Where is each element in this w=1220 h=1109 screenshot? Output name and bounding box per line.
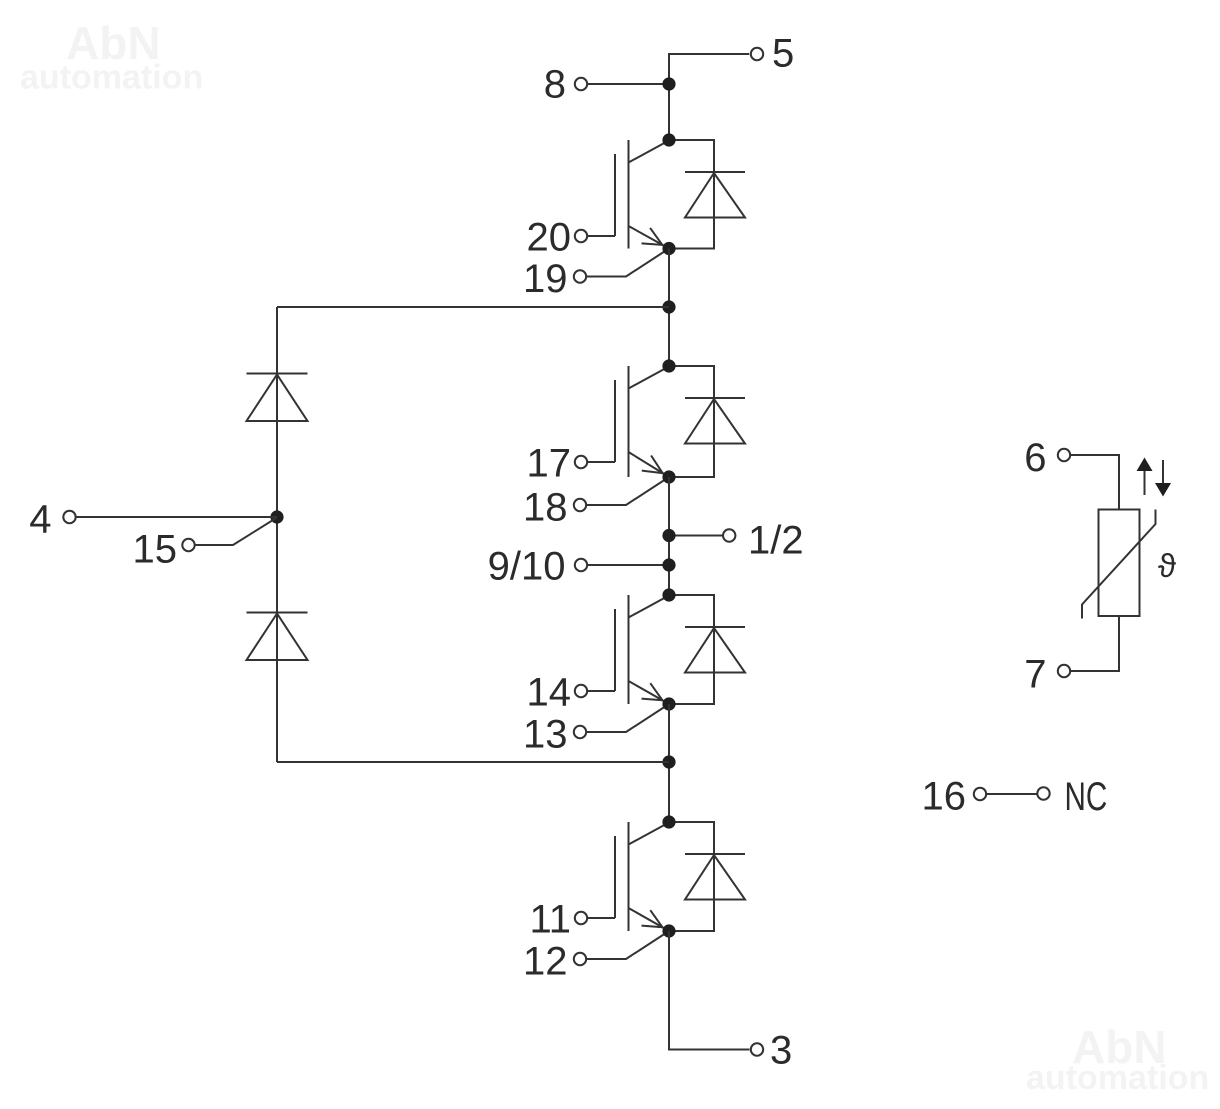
wire rail T4 emitter to terminal 3 [669, 931, 750, 1050]
label 9/10 [488, 544, 566, 588]
terminal 5 [751, 48, 763, 60]
label 20 [527, 215, 572, 259]
junction node 1/2 [662, 529, 675, 542]
terminal 8 [575, 78, 587, 90]
wire gate 11 [587, 917, 615, 919]
diode D5 (upper clamp) [247, 374, 308, 422]
svg-text:3: 3 [770, 1028, 792, 1072]
wire aux emitter 13 [586, 704, 669, 732]
svg-text:9/10: 9/10 [488, 544, 566, 588]
terminal 7 [1058, 665, 1070, 677]
terminal 14 [575, 685, 587, 697]
node T1 emitter [662, 242, 675, 255]
terminal 6 [1058, 449, 1070, 461]
terminal 18 [574, 499, 586, 511]
node T4 collector [662, 815, 675, 828]
svg-text:12: 12 [523, 939, 568, 983]
wire rail T3 emitter to T4 collector [668, 704, 670, 822]
junction node 9/10 [662, 558, 675, 571]
node T2 collector [662, 359, 675, 372]
svg-text:8: 8 [544, 62, 566, 106]
wire clamp branch bottom [277, 761, 669, 763]
diode D3 (anti-parallel) [669, 595, 745, 704]
svg-text:ϑ: ϑ [1158, 547, 1176, 584]
svg-text:1/2: 1/2 [748, 518, 804, 562]
label 15 [133, 527, 178, 571]
label 19 [523, 257, 568, 301]
label 4 [29, 497, 51, 541]
thermistor R1 (NTC) body [1099, 510, 1140, 617]
label 18 [523, 485, 568, 529]
watermark top-left [20, 17, 203, 97]
svg-text:18: 18 [523, 485, 568, 529]
label 1/2 [748, 518, 804, 562]
thermistor R1 characteristic stroke [1082, 510, 1156, 619]
diode D4 (anti-parallel) [669, 822, 745, 931]
terminal 19 [574, 270, 586, 282]
wire terminal 9/10 [587, 564, 669, 566]
wire clamp branch left rail [276, 307, 278, 762]
terminal 4 [63, 511, 75, 523]
terminal 20 [575, 230, 587, 242]
node T4 emitter [662, 924, 675, 937]
node T2 emitter [662, 470, 675, 483]
svg-text:14: 14 [527, 670, 572, 714]
terminal 1/2 [723, 529, 735, 541]
wire terminal 1/2 [669, 535, 723, 537]
diode D2 (anti-parallel) [669, 366, 745, 477]
wire gate 20 [587, 235, 615, 237]
label 3 [770, 1028, 792, 1072]
terminal 12 [574, 953, 586, 965]
terminal 13 [574, 726, 586, 738]
wire aux emitter 19 [586, 249, 669, 277]
svg-text:automation: automation [20, 59, 203, 97]
svg-text:7: 7 [1024, 652, 1046, 696]
svg-text:automation: automation [1026, 1059, 1209, 1097]
junction node at 8 [662, 77, 675, 90]
wire terminal 15 [195, 518, 278, 546]
wire rail T1 emitter to T2 collector [668, 249, 670, 367]
wire thermistor to terminal 7 [1071, 616, 1120, 671]
terminal NC [1037, 787, 1049, 799]
terminal 3 [751, 1043, 763, 1055]
wire rail T2 emitter to T3 collector [668, 477, 670, 595]
transistor T3 (IGBT) [615, 595, 669, 704]
svg-text:15: 15 [133, 527, 178, 571]
wire rail top (node8 to T1 collector) and stub to terminal 5 [669, 54, 749, 140]
wire 16 to NC [987, 793, 1038, 795]
terminal 17 [575, 456, 587, 468]
svg-text:20: 20 [527, 215, 572, 259]
watermark bottom-right [1026, 1021, 1209, 1097]
transistor T2 (IGBT) [615, 366, 669, 477]
label 17 [527, 441, 572, 485]
label 14 [527, 670, 572, 714]
node T3 collector [662, 588, 675, 601]
wire gate 17 [587, 461, 615, 463]
svg-text:17: 17 [527, 441, 572, 485]
junction node 4/15 [270, 510, 283, 523]
transistor T4 (IGBT) [615, 822, 669, 931]
wire gate 14 [587, 690, 615, 692]
wire aux emitter 18 [586, 477, 669, 505]
label theta [1158, 547, 1176, 584]
terminal 16 [974, 788, 986, 800]
svg-text:NC: NC [1065, 775, 1108, 819]
arrow up [1137, 458, 1153, 496]
wire clamp branch top [277, 306, 669, 308]
diode D1 (anti-parallel) [669, 140, 745, 249]
wire terminal 8 [587, 83, 669, 85]
label 7 [1024, 652, 1046, 696]
label 11 [529, 897, 571, 941]
svg-text:6: 6 [1024, 436, 1046, 480]
label 8 [544, 62, 566, 106]
label 5 [772, 31, 794, 75]
svg-text:5: 5 [772, 31, 794, 75]
label NC [1065, 775, 1108, 819]
label 12 [523, 939, 568, 983]
wire terminal 4 [76, 516, 278, 518]
terminal 15 [182, 539, 194, 551]
terminal 9/10 [575, 559, 587, 571]
svg-text:19: 19 [523, 257, 568, 301]
diode D6 (lower clamp) [247, 613, 308, 661]
label 6 [1024, 436, 1046, 480]
junction node upper clamp tap [662, 300, 675, 313]
arrow down [1155, 460, 1171, 497]
node T1 collector [662, 133, 675, 146]
svg-text:13: 13 [523, 712, 568, 756]
node T3 emitter [662, 697, 675, 710]
svg-text:4: 4 [29, 497, 51, 541]
wire aux emitter 12 [586, 931, 669, 959]
label 13 [523, 712, 568, 756]
svg-text:11: 11 [529, 897, 571, 941]
svg-text:16: 16 [922, 774, 967, 818]
junction node lower clamp tap [662, 755, 675, 768]
wire terminal 6 to thermistor [1071, 455, 1120, 510]
label 16 [922, 774, 967, 818]
transistor T1 (IGBT) [615, 140, 669, 249]
terminal 11 [575, 912, 587, 924]
